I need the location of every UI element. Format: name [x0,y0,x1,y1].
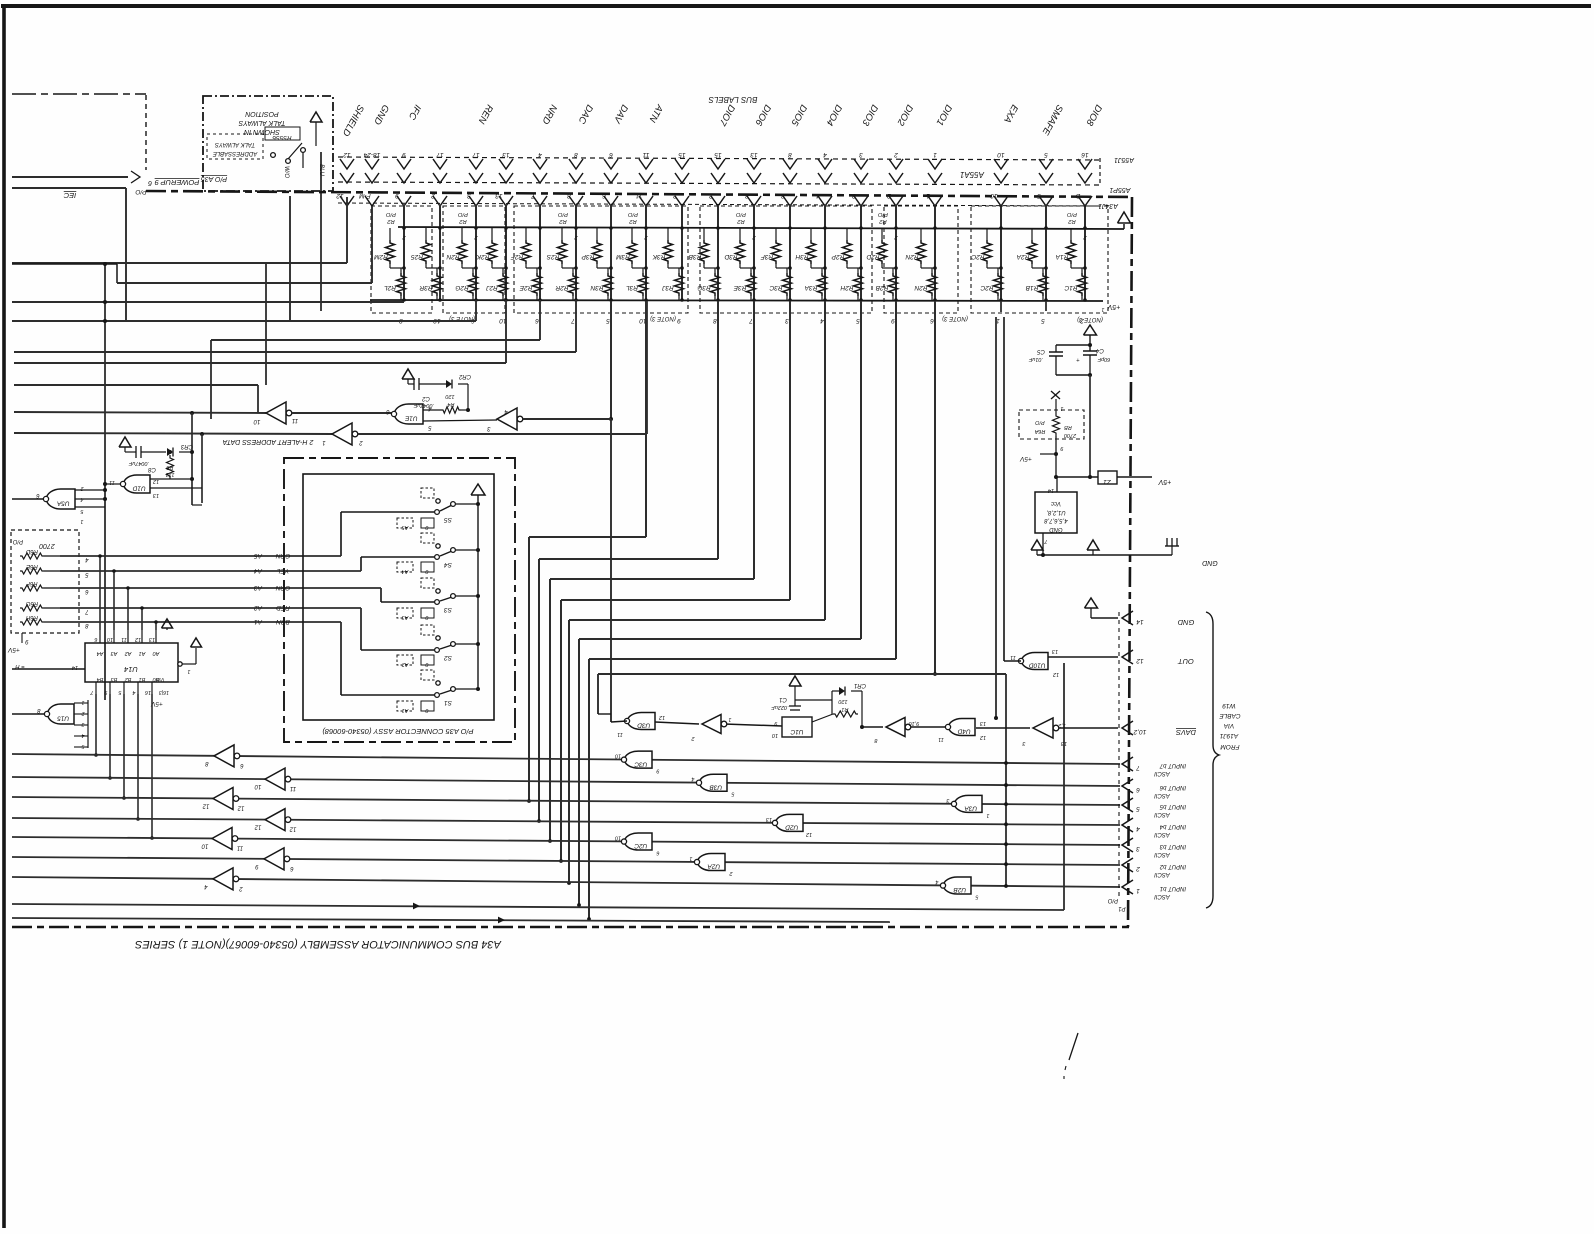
svg-text:1: 1 [986,812,989,818]
svg-text:A3: A3 [110,650,119,656]
svg-text:POSITION: POSITION [244,110,278,117]
svg-text:13: 13 [148,636,155,642]
svg-text:ASCII: ASCII [1154,811,1171,817]
svg-text:U10D: U10D [1029,662,1046,669]
svg-text:P/O: P/O [13,538,24,544]
svg-text:U1E: U1E [404,415,417,422]
svg-text:10: 10 [990,192,998,199]
svg-text:R2: R2 [459,218,467,224]
svg-text:S3: S3 [444,606,452,613]
svg-text:11: 11 [109,479,115,485]
svg-text:B2: B2 [125,676,132,682]
svg-text:8: 8 [574,151,578,158]
svg-text:R2: R2 [629,218,637,224]
svg-text:S4: S4 [444,561,452,568]
svg-text:13: 13 [152,492,159,498]
svg-text:P/O: P/O [386,211,396,217]
svg-text:INPUT b2: INPUT b2 [1159,863,1186,869]
svg-text:RB: RB [1064,424,1072,430]
svg-text:9: 9 [891,317,895,324]
svg-text:7: 7 [749,317,753,324]
svg-text:P/O: P/O [1108,897,1119,903]
svg-text:2700: 2700 [1063,432,1077,438]
svg-text:(NOTE 3): (NOTE 3) [1077,316,1103,322]
svg-text:ASCII: ASCII [1154,831,1171,837]
svg-text:12: 12 [237,805,244,811]
svg-text:11: 11 [938,736,944,742]
svg-text:A5: A5 [401,524,410,530]
svg-text:R6F: R6F [26,580,38,586]
svg-text:8: 8 [713,317,717,324]
svg-text:R2E: R2E [519,284,532,291]
svg-text:12: 12 [135,636,141,642]
svg-text:U2A: U2A [707,863,720,870]
svg-text:.0047uF: .0047uF [128,460,149,466]
svg-text:DAVS: DAVS [1176,728,1196,737]
svg-text:10: 10 [614,753,621,759]
svg-text:10: 10 [106,636,113,642]
svg-text:R2C: R2C [971,253,984,260]
svg-text:1: 1 [933,151,937,158]
svg-text:INPUT b3: INPUT b3 [1159,843,1186,849]
svg-text:U1C: U1C [790,728,803,735]
svg-text:11: 11 [121,636,127,642]
svg-text:6: 6 [609,151,613,158]
svg-text:11: 11 [237,845,243,851]
svg-text:R2N: R2N [446,253,459,260]
svg-text:60pF: 60pF [1097,356,1110,362]
svg-text:P/O: P/O [878,211,888,217]
svg-text:A1: A1 [254,618,263,625]
svg-text:R4: R4 [447,401,454,407]
svg-text:A19J1: A19J1 [1219,732,1239,739]
svg-text:11: 11 [617,731,623,737]
svg-text:2: 2 [729,870,733,876]
svg-text:INPUT b7: INPUT b7 [1159,762,1186,768]
svg-text:9: 9 [656,768,659,774]
svg-text:B4: B4 [97,676,104,682]
svg-text:2 H-ALERT ADDRESS DATA: 2 H-ALERT ADDRESS DATA [222,438,314,445]
svg-text:5: 5 [1041,317,1045,324]
svg-text:= H: = H [15,663,25,669]
svg-text:17: 17 [472,151,480,158]
svg-text:TALK ALWAYS: TALK ALWAYS [238,119,285,126]
svg-text:A4: A4 [254,567,263,574]
svg-text:4: 4 [81,732,84,738]
svg-text:3: 3 [1136,845,1140,852]
svg-text:10: 10 [771,732,778,738]
svg-text:2: 2 [239,885,244,891]
svg-text:B3: B3 [110,676,118,682]
svg-text:18-24: 18-24 [363,151,380,158]
svg-text:1: 1 [81,699,84,705]
svg-text:TALK ALWAYS: TALK ALWAYS [215,141,255,147]
svg-text:P1: P1 [1118,905,1125,911]
svg-text:INPUT b1: INPUT b1 [1160,885,1186,891]
svg-text:11: 11 [1010,654,1016,660]
svg-text:1: 1 [1136,887,1140,894]
svg-text:+: + [1076,356,1080,362]
svg-text:GND: GND [1202,559,1218,566]
svg-text:5: 5 [606,317,610,324]
svg-text:C1: C1 [779,696,787,702]
svg-text:7: 7 [1136,764,1140,771]
svg-text:.01uF: .01uF [1028,356,1043,362]
svg-text:S5: S5 [444,516,452,523]
svg-text:.0047uF: .0047uF [413,402,434,408]
svg-text:B1: B1 [139,676,146,682]
svg-text:12: 12 [343,151,351,158]
svg-text:R1: R1 [841,706,848,712]
svg-text:120: 120 [837,698,847,704]
svg-text:U14: U14 [124,665,138,674]
svg-text:P/O: P/O [1067,211,1077,217]
svg-text:4: 4 [935,879,938,885]
svg-text:R6A: R6A [1034,428,1045,434]
svg-text:7: 7 [571,317,575,324]
svg-text:R2R: R2R [555,284,568,291]
svg-text:1: 1 [80,518,83,524]
svg-text:A1: A1 [139,650,147,656]
svg-text:4: 4 [1136,825,1140,832]
svg-text:U4D: U4D [957,728,970,735]
svg-text:R3H: R3H [795,253,808,260]
svg-text:A55P1: A55P1 [1109,186,1131,193]
svg-text:R3C: R3C [769,284,782,291]
svg-text:R2M: R2M [374,253,388,260]
svg-text:R25: R25 [411,253,423,260]
svg-text:P/O: P/O [135,188,146,195]
svg-text:GND: GND [1049,526,1063,532]
svg-text:10: 10 [201,843,208,849]
svg-text:12: 12 [202,803,209,809]
svg-text:R2B: R2B [875,284,888,291]
svg-text:R2P: R2P [831,253,844,260]
svg-text:5: 5 [856,317,860,324]
svg-text:ADDRESSABLE: ADDRESSABLE [212,150,258,156]
svg-text:A4: A4 [97,650,105,656]
svg-text:120: 120 [444,393,454,399]
svg-text:CR1: CR1 [854,682,866,688]
svg-text:R3J: R3J [661,284,673,291]
svg-text:9,10: 9,10 [908,720,920,726]
svg-text:R2C: R2C [980,284,993,291]
svg-text:13: 13 [765,816,772,822]
svg-text:R6H: R6H [25,614,38,620]
svg-text:U2D: U2D [785,824,798,831]
svg-text:14: 14 [72,664,78,670]
svg-text:2: 2 [359,439,364,445]
svg-text:12: 12 [289,826,296,832]
svg-text:R1C: R1C [1064,284,1077,291]
svg-text:P/O: P/O [458,211,468,217]
svg-text:10: 10 [253,418,260,424]
svg-text:R2G: R2G [455,284,468,291]
svg-text:4: 4 [538,151,542,158]
svg-text:A5: A5 [254,552,263,559]
svg-text:4: 4 [132,689,135,695]
svg-text:U15: U15 [57,715,69,722]
svg-text:2: 2 [1136,865,1141,872]
svg-text:4: 4 [823,151,827,158]
svg-text:R6G: R6G [26,600,39,606]
svg-text:12: 12 [254,824,261,830]
svg-text:F-M: F-M [359,192,371,199]
svg-text:W/O: W/O [283,166,289,178]
svg-text:R6D: R6D [25,548,38,554]
svg-text:R2: R2 [559,218,567,224]
svg-text:12: 12 [1053,671,1059,677]
svg-text:R5556: R5556 [272,134,292,141]
svg-text:R2A: R2A [1017,253,1030,260]
svg-text:9: 9 [677,317,681,324]
svg-text:R2J: R2J [485,284,497,291]
svg-text:5: 5 [1044,151,1048,158]
svg-text:U3C: U3C [634,760,647,767]
svg-text:11: 11 [290,785,296,791]
svg-text:5: 5 [1136,805,1140,812]
svg-text:12: 12 [806,831,812,837]
svg-text:A2: A2 [254,604,263,611]
svg-text:CABLE: CABLE [1219,712,1241,719]
svg-text:R2L: R2L [384,284,396,291]
svg-text:2: 2 [691,735,695,741]
svg-text:9: 9 [1060,445,1063,451]
svg-text:+5V: +5V [7,646,19,653]
svg-text:17: 17 [436,151,444,158]
svg-text:4,5,6,7,8: 4,5,6,7,8 [1044,517,1068,523]
svg-text:2: 2 [80,485,84,491]
svg-text:R3L: R3L [626,284,638,291]
svg-text:BRN: BRN [276,618,290,625]
svg-text:R2: R2 [737,218,745,224]
svg-text:1: 1 [728,716,731,722]
svg-text:C2: C2 [422,395,430,401]
svg-text:C4: C4 [1096,347,1104,353]
svg-text:R2K: R2K [476,253,489,260]
svg-text:12: 12 [336,192,344,199]
svg-text:R1A: R1A [1056,253,1069,260]
svg-text:P/O: P/O [1035,419,1045,425]
svg-text:U2B: U2B [953,886,966,893]
svg-text:R3E: R3E [733,284,746,291]
svg-text:1: 1 [187,668,190,674]
svg-text:8: 8 [788,151,792,158]
svg-text:11: 11 [642,151,649,158]
svg-text:RED: RED [276,604,290,611]
svg-text:R3F: R3F [760,253,773,260]
svg-text:R5: R5 [166,464,174,470]
svg-text:12: 12 [980,734,986,740]
svg-text:C5: C5 [1037,348,1045,354]
svg-text:+5V: +5V [1019,455,1031,462]
svg-text:R2: R2 [387,218,395,224]
svg-text:6: 6 [148,179,152,186]
svg-text:U2C: U2C [634,842,647,849]
svg-text:6: 6 [1136,786,1140,793]
svg-text:15: 15 [714,151,722,158]
svg-text:16: 16 [144,689,151,695]
svg-text:CR2: CR2 [458,373,471,379]
svg-text:+5V: +5V [1157,478,1171,485]
svg-text:R2H: R2H [840,284,853,291]
svg-text:R3R: R3R [419,284,432,291]
svg-text:A55A1: A55A1 [960,170,985,179]
svg-text:16: 16 [1081,151,1089,158]
svg-text:Vss: Vss [155,676,164,682]
svg-text:S2: S2 [444,654,452,661]
svg-text:INPUT b4: INPUT b4 [1159,823,1186,829]
svg-text:P/O: P/O [628,211,638,217]
svg-text:S1: S1 [444,699,452,706]
svg-text:12: 12 [659,714,665,720]
svg-text:A34 BUS COMMUNICATOR ASSEMBLY: A34 BUS COMMUNICATOR ASSEMBLY (05340-600… [134,938,502,950]
svg-text:13: 13 [495,192,503,199]
svg-text:U1,2,8,: U1,2,8, [1046,509,1065,515]
svg-text:Vcc: Vcc [1051,500,1061,506]
svg-text:11: 11 [635,192,642,199]
svg-text:R2D: R2D [866,253,879,260]
svg-text:3: 3 [859,151,863,158]
svg-text:INPUT b6: INPUT b6 [1159,784,1186,790]
svg-text:U3D: U3D [637,722,650,729]
svg-text:6: 6 [535,317,539,324]
svg-text:R3B: R3B [688,253,701,260]
svg-text:R3K: R3K [652,253,665,260]
svg-text:INPUT b5: INPUT b5 [1159,803,1186,809]
svg-text:R3G: R3G [697,284,710,291]
svg-text:ASCII: ASCII [1154,851,1171,857]
svg-text:BLU: BLU [318,164,324,176]
svg-text:1: 1 [689,855,692,861]
svg-text:ASCII: ASCII [1154,893,1171,899]
svg-text:GND: GND [1177,618,1194,627]
svg-text:2: 2 [894,151,899,158]
svg-text:13: 13 [750,151,758,158]
svg-text:ASCII: ASCII [1154,770,1171,776]
svg-text:R3D: R3D [724,253,737,260]
svg-text:13: 13 [979,720,986,726]
svg-text:13: 13 [1051,648,1058,654]
svg-text:15: 15 [678,151,686,158]
svg-text:(NOTE 3): (NOTE 3) [942,315,968,321]
svg-text:1: 1 [322,439,325,445]
svg-text:A3: A3 [254,584,263,591]
svg-text:3: 3 [81,721,84,727]
svg-text:P/O A35: P/O A35 [201,175,227,182]
svg-text:3: 3 [785,317,789,324]
svg-text:1: 1 [1060,405,1063,411]
svg-text:R2F: R2F [510,253,523,260]
svg-text:A34J1: A34J1 [1098,202,1119,209]
svg-text:P/O A35 CONNECTOR ASSY (05340-: P/O A35 CONNECTOR ASSY (05340-60068) [322,727,474,736]
svg-text:6: 6 [930,317,934,324]
svg-text:R2N: R2N [914,284,927,291]
svg-text:A55J1: A55J1 [1114,156,1135,163]
svg-text:2: 2 [81,710,85,716]
svg-text:10: 10 [614,835,621,841]
svg-text:CR3: CR3 [180,443,193,449]
svg-text:IEC: IEC [63,191,76,200]
svg-text:R1B: R1B [1025,284,1038,291]
svg-text:10: 10 [997,151,1005,158]
svg-text:FROM: FROM [1220,743,1240,750]
svg-text:12: 12 [1136,657,1144,664]
svg-text:A4: A4 [402,568,410,574]
svg-text:4: 4 [820,317,824,324]
svg-text:.022uF: .022uF [771,704,789,710]
svg-text:9: 9 [402,151,406,158]
svg-text:ASCII: ASCII [1154,792,1171,798]
svg-text:POWERUP 9: POWERUP 9 [154,178,200,187]
svg-text:13: 13 [502,151,510,158]
svg-text:Z1: Z1 [1103,478,1112,485]
svg-text:14: 14 [1136,618,1144,625]
svg-text:A3: A3 [401,614,410,620]
svg-text:1,2: 1,2 [1058,722,1066,728]
svg-text:P/O: P/O [558,211,568,217]
svg-text:4: 4 [80,496,83,502]
svg-text:ASCII: ASCII [1154,871,1171,877]
svg-text:R3P: R3P [581,253,594,260]
svg-text:R3A: R3A [805,284,818,291]
svg-text:A0: A0 [152,650,161,656]
svg-text:ORN: ORN [275,584,290,591]
svg-text:13: 13 [1060,740,1067,746]
svg-text:121: 121 [165,471,174,477]
svg-text:YEL: YEL [276,567,289,574]
svg-text:11: 11 [292,417,298,423]
svg-text:10: 10 [254,783,261,789]
svg-text:R2: R2 [879,218,887,224]
svg-text:1: 1 [1101,306,1104,312]
svg-text:(NOTE 3): (NOTE 3) [650,315,676,321]
svg-text:R3N: R3N [590,284,603,291]
svg-text:A1: A1 [402,707,410,713]
svg-text:A2: A2 [402,661,410,667]
svg-text:U3A: U3A [964,805,977,812]
svg-text:VIA: VIA [1224,722,1234,729]
svg-text:R2: R2 [1068,218,1076,224]
svg-text:BUS LABELS: BUS LABELS [708,95,758,104]
svg-text:W19: W19 [1222,702,1236,709]
svg-text:10,2: 10,2 [1133,728,1146,735]
svg-text:U1D: U1D [132,485,145,492]
svg-text:16|3: 16|3 [159,689,169,695]
svg-text:5: 5 [81,743,84,749]
svg-text:P/O: P/O [736,211,746,217]
svg-text:R2S: R2S [546,253,559,260]
svg-text:2700: 2700 [39,542,56,549]
svg-text:A2: A2 [125,650,133,656]
svg-text:4: 4 [691,776,694,782]
svg-text:U3B: U3B [709,783,722,790]
svg-text:OUT: OUT [1177,657,1194,666]
svg-text:U5A: U5A [57,500,70,507]
svg-text:GRN: GRN [275,552,290,559]
svg-text:R3M: R3M [616,253,630,260]
svg-text:9: 9 [104,689,107,695]
svg-text:R6E: R6E [25,563,38,569]
svg-text:R2N: R2N [905,253,918,260]
